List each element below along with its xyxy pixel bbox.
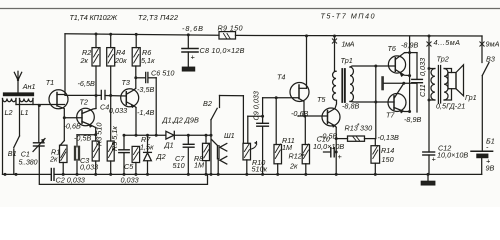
svg-text:-3,5В: -3,5В <box>137 85 154 94</box>
svg-text:Т5-Т7 МП40: Т5-Т7 МП40 <box>321 12 375 21</box>
svg-text:9мА: 9мА <box>486 40 500 49</box>
svg-text:Т4: Т4 <box>277 73 285 82</box>
svg-text:1М: 1М <box>194 161 205 170</box>
svg-text:С5: С5 <box>124 162 134 171</box>
svg-text:-0,13В: -0,13В <box>378 133 400 142</box>
svg-text:Т1: Т1 <box>46 78 54 87</box>
svg-text:2к: 2к <box>49 155 58 164</box>
svg-text:Т1,Т4 КП102Ж: Т1,Т4 КП102Ж <box>70 13 118 22</box>
svg-text:0,033: 0,033 <box>418 58 427 76</box>
svg-text:20к: 20к <box>114 56 127 65</box>
svg-text:Тр1: Тр1 <box>341 56 353 65</box>
svg-text:+: + <box>191 53 195 62</box>
svg-text:0,033: 0,033 <box>80 163 98 172</box>
svg-text:0,033: 0,033 <box>109 106 127 115</box>
svg-text:С2 0,033: С2 0,033 <box>56 176 85 185</box>
svg-text:510: 510 <box>173 161 185 170</box>
svg-text:Т3: Т3 <box>122 78 130 87</box>
svg-text:Т2,Т3 П422: Т2,Т3 П422 <box>138 13 178 22</box>
svg-text:Д1: Д1 <box>164 141 174 150</box>
svg-text:-8,8В: -8,8В <box>342 102 359 111</box>
svg-text:5..380: 5..380 <box>19 158 38 167</box>
svg-text:9В: 9В <box>486 164 495 173</box>
svg-text:-6,5В: -6,5В <box>78 79 95 88</box>
svg-text:Т7: Т7 <box>386 111 395 120</box>
svg-text:L1: L1 <box>21 108 29 117</box>
svg-text:2к: 2к <box>289 161 298 170</box>
svg-text:4...5мА: 4...5мА <box>434 38 461 47</box>
svg-text:R12*: R12* <box>289 152 306 161</box>
svg-text:-8,9В: -8,9В <box>401 41 418 50</box>
svg-text:R14: R14 <box>381 146 394 155</box>
svg-text:0,5ГД-21: 0,5ГД-21 <box>436 102 465 111</box>
svg-text:Д1,Д2 Д9В: Д1,Д2 Д9В <box>162 115 199 124</box>
svg-text:5,1к: 5,1к <box>141 56 155 65</box>
svg-text:Д2: Д2 <box>156 152 166 161</box>
svg-text:10,0×10В: 10,0×10В <box>313 142 344 151</box>
svg-text:С6 510: С6 510 <box>151 69 174 78</box>
svg-text:С4: С4 <box>100 103 109 112</box>
svg-text:С9 0,033: С9 0,033 <box>252 91 261 120</box>
svg-text:R5 5,1к: R5 5,1к <box>110 126 119 151</box>
svg-text:Ш1: Ш1 <box>224 131 235 140</box>
svg-text:150: 150 <box>382 155 394 164</box>
svg-text:Гр1: Гр1 <box>465 93 477 102</box>
svg-text:L2: L2 <box>5 108 13 117</box>
svg-text:Т2: Т2 <box>80 98 88 107</box>
svg-text:-8,9В: -8,9В <box>404 115 421 124</box>
svg-text:-8,6В: -8,6В <box>182 24 203 33</box>
svg-text:10,0×10В: 10,0×10В <box>437 151 468 160</box>
svg-text:330: 330 <box>360 124 372 133</box>
svg-text:В3: В3 <box>486 55 495 64</box>
svg-text:-0,6В: -0,6В <box>64 121 81 130</box>
svg-text:+: + <box>432 155 436 164</box>
svg-text:1,5к: 1,5к <box>140 143 154 152</box>
svg-text:-0,5В: -0,5В <box>74 134 91 143</box>
svg-text:Тр2: Тр2 <box>437 55 449 64</box>
svg-text:Т5: Т5 <box>317 95 326 104</box>
svg-text:Ан1: Ан1 <box>22 82 36 91</box>
svg-text:-1,4В: -1,4В <box>137 108 154 117</box>
svg-text:0,033: 0,033 <box>121 176 139 185</box>
svg-text:1мА: 1мА <box>342 40 355 49</box>
svg-text:С11: С11 <box>418 84 427 97</box>
svg-text:510к: 510к <box>252 165 268 174</box>
svg-text:Т6: Т6 <box>388 44 397 53</box>
svg-text:+: + <box>338 152 342 161</box>
svg-text:С8 10,0×12В: С8 10,0×12В <box>200 46 245 55</box>
svg-text:2к: 2к <box>80 56 89 65</box>
svg-text:В2: В2 <box>203 99 212 108</box>
svg-text:В1: В1 <box>8 149 17 158</box>
